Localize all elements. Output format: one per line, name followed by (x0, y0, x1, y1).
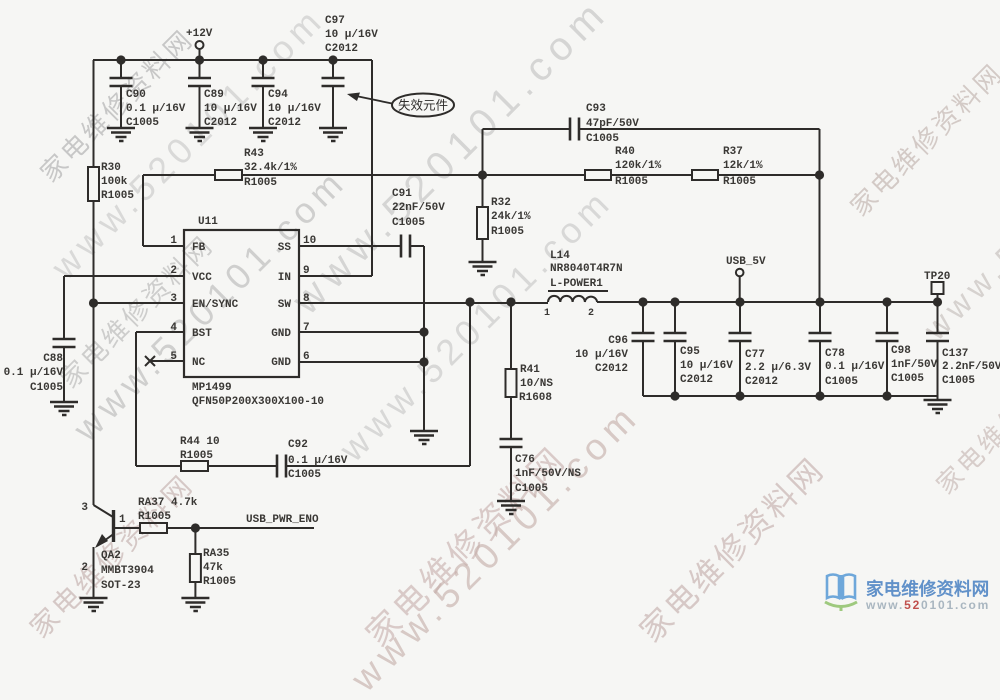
svg-text:NR8040T4R7N: NR8040T4R7N (550, 263, 623, 275)
svg-text:R40: R40 (615, 146, 635, 158)
svg-text:0.1 μ/16V: 0.1 μ/16V (288, 455, 348, 467)
svg-text:C76: C76 (515, 454, 535, 466)
svg-text:24k/1%: 24k/1% (491, 211, 531, 223)
svg-text:FB: FB (192, 242, 206, 254)
svg-text:10/NS: 10/NS (520, 378, 553, 390)
svg-text:R1005: R1005 (615, 176, 648, 188)
svg-text:EN/SYNC: EN/SYNC (192, 299, 239, 311)
svg-text:U11: U11 (198, 216, 218, 228)
svg-text:0.1 μ/16V: 0.1 μ/16V (126, 103, 186, 115)
svg-text:10 μ/16V: 10 μ/16V (680, 360, 733, 372)
svg-text:4: 4 (170, 322, 177, 334)
svg-text:6: 6 (303, 351, 310, 363)
svg-text:SW: SW (278, 299, 292, 311)
svg-text:USB_PWR_ENO: USB_PWR_ENO (246, 514, 319, 526)
svg-text:R1005: R1005 (244, 177, 277, 189)
svg-text:C1005: C1005 (942, 375, 975, 387)
svg-text:C1005: C1005 (30, 382, 63, 394)
svg-text:C1005: C1005 (126, 117, 159, 129)
svg-text:C137: C137 (942, 348, 968, 360)
svg-text:10 μ/16V: 10 μ/16V (268, 103, 321, 115)
svg-text:2: 2 (588, 308, 594, 319)
svg-text:R43: R43 (244, 148, 264, 160)
svg-text:R30: R30 (101, 162, 121, 174)
svg-text:C94: C94 (268, 89, 288, 101)
svg-text:MP1499: MP1499 (192, 382, 232, 394)
svg-text:R1005: R1005 (138, 511, 171, 523)
svg-text:47pF/50V: 47pF/50V (586, 118, 639, 130)
svg-text:C92: C92 (288, 439, 308, 451)
svg-text:C2012: C2012 (325, 43, 358, 55)
svg-text:IN: IN (278, 272, 291, 284)
svg-text:2: 2 (81, 562, 88, 574)
svg-text:2.2 μ/6.3V: 2.2 μ/6.3V (745, 362, 811, 374)
svg-text:C1005: C1005 (288, 469, 321, 481)
svg-text:1: 1 (170, 235, 177, 247)
svg-text:C2012: C2012 (204, 117, 237, 129)
svg-text:1: 1 (544, 308, 550, 319)
svg-text:C91: C91 (392, 188, 412, 200)
svg-text:R37: R37 (723, 146, 743, 158)
svg-text:C1005: C1005 (515, 483, 548, 495)
svg-text:12k/1%: 12k/1% (723, 160, 763, 172)
svg-text:7: 7 (303, 322, 310, 334)
svg-text:C89: C89 (204, 89, 224, 101)
svg-text:家电维修资料网: 家电维修资料网 (866, 579, 989, 599)
svg-text:C88: C88 (43, 353, 63, 365)
svg-text:RA35: RA35 (203, 548, 230, 560)
svg-text:0.1 μ/16V: 0.1 μ/16V (4, 367, 64, 379)
svg-text:C1005: C1005 (825, 376, 858, 388)
svg-text:32.4k/1%: 32.4k/1% (244, 162, 297, 174)
svg-text:10 μ/16V: 10 μ/16V (204, 103, 257, 115)
svg-text:SS: SS (278, 242, 292, 254)
svg-text:C1005: C1005 (392, 217, 425, 229)
svg-text:C95: C95 (680, 346, 700, 358)
svg-text:GND: GND (271, 357, 291, 369)
svg-text:1nF/50V: 1nF/50V (891, 359, 938, 371)
svg-text:GND: GND (271, 328, 291, 340)
svg-text:C2012: C2012 (268, 117, 301, 129)
svg-text:MMBT3904: MMBT3904 (101, 565, 154, 577)
svg-text:47k: 47k (203, 562, 223, 574)
svg-text:RA37 4.7k: RA37 4.7k (138, 497, 198, 509)
svg-text:QFN50P200X300X100-10: QFN50P200X300X100-10 (192, 396, 324, 408)
svg-text:10 μ/16V: 10 μ/16V (575, 349, 628, 361)
svg-text:失效元件: 失效元件 (398, 98, 448, 113)
svg-text:100k: 100k (101, 176, 128, 188)
svg-text:0.1 μ/16V: 0.1 μ/16V (825, 361, 885, 373)
svg-text:R1005: R1005 (203, 576, 236, 588)
svg-text:1: 1 (119, 514, 126, 526)
svg-text:C96: C96 (608, 335, 628, 347)
svg-text:QA2: QA2 (101, 550, 121, 562)
svg-text:R41: R41 (520, 364, 540, 376)
svg-text:C1005: C1005 (586, 133, 619, 145)
svg-text:8: 8 (303, 293, 310, 305)
svg-text:9: 9 (303, 265, 310, 277)
svg-text:120k/1%: 120k/1% (615, 160, 662, 172)
svg-text:NC: NC (192, 357, 206, 369)
svg-text:VCC: VCC (192, 272, 212, 284)
svg-text:R32: R32 (491, 197, 511, 209)
svg-text:TP20: TP20 (924, 271, 950, 283)
svg-text:R1608: R1608 (519, 392, 552, 404)
svg-text:C2012: C2012 (680, 374, 713, 386)
svg-text:R44 10: R44 10 (180, 436, 220, 448)
svg-text:SOT-23: SOT-23 (101, 580, 141, 592)
svg-text:L14: L14 (550, 250, 570, 262)
svg-text:C90: C90 (126, 89, 146, 101)
svg-text:BST: BST (192, 328, 212, 340)
svg-text:1nF/50V/NS: 1nF/50V/NS (515, 468, 581, 480)
svg-text:C93: C93 (586, 103, 606, 115)
svg-text:R1005: R1005 (723, 176, 756, 188)
svg-text:C2012: C2012 (595, 363, 628, 375)
svg-text:www.520101.com: www.520101.com (865, 598, 990, 612)
svg-text:USB_5V: USB_5V (726, 256, 766, 268)
svg-text:10 μ/16V: 10 μ/16V (325, 29, 378, 41)
svg-text:R1005: R1005 (101, 190, 134, 202)
svg-text:+12V: +12V (186, 28, 213, 40)
svg-text:L-POWER1: L-POWER1 (550, 278, 603, 290)
svg-text:R1005: R1005 (180, 450, 213, 462)
svg-text:C77: C77 (745, 349, 765, 361)
svg-text:R1005: R1005 (491, 226, 524, 238)
svg-text:2: 2 (170, 265, 177, 277)
svg-text:22nF/50V: 22nF/50V (392, 202, 445, 214)
svg-text:C97: C97 (325, 15, 345, 27)
svg-text:3: 3 (170, 293, 177, 305)
svg-text:C1005: C1005 (891, 373, 924, 385)
svg-text:C78: C78 (825, 348, 845, 360)
svg-text:C98: C98 (891, 345, 911, 357)
svg-text:2.2nF/50V: 2.2nF/50V (942, 361, 1000, 373)
svg-text:3: 3 (81, 502, 88, 514)
svg-text:5: 5 (170, 351, 177, 363)
svg-text:C2012: C2012 (745, 376, 778, 388)
svg-text:10: 10 (303, 235, 316, 247)
